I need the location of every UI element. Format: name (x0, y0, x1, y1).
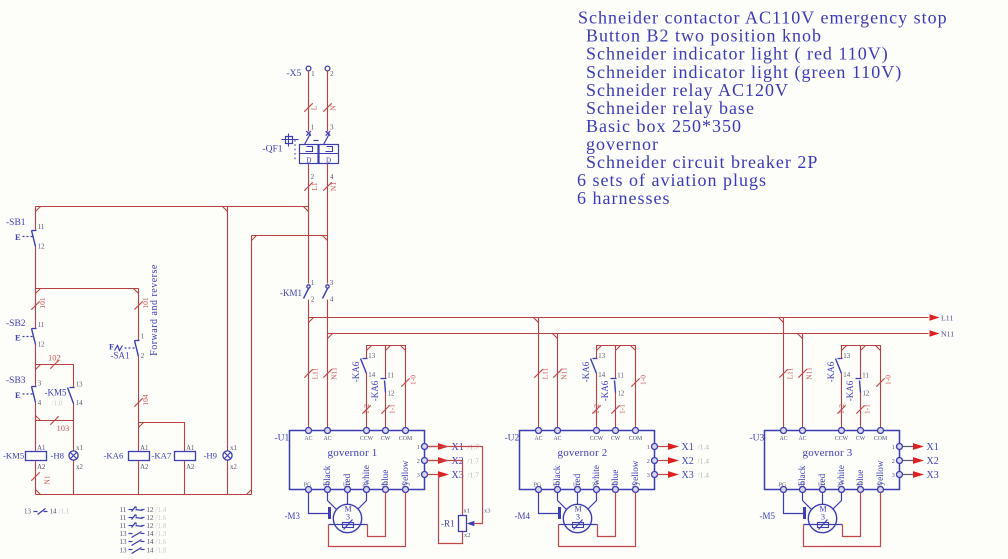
terminal S1 -U1 (383, 487, 389, 493)
junction chamfer KA7 branch (139, 423, 144, 428)
wire number 1-2 marker -U2 (592, 405, 600, 413)
svg-text:-KA6: -KA6 (351, 361, 361, 382)
wire KA6 14 to CCW terminal -U3 (841, 374, 843, 431)
svg-text:1-2: 1-2 (362, 404, 371, 414)
wire number 1-1 marker -U3 (856, 405, 864, 413)
terminal 2 -U3 (897, 458, 903, 464)
svg-text:3: 3 (38, 380, 42, 387)
motor -M5 feedback pot chord (804, 524, 843, 526)
wire X1 output -U1 (428, 446, 439, 448)
wire X1 to R1 wiper (428, 447, 483, 524)
svg-text:-KA6: -KA6 (826, 361, 836, 382)
R1 wiper arrow (467, 521, 475, 527)
svg-text:4: 4 (38, 400, 42, 407)
svg-text:1-2: 1-2 (592, 404, 601, 414)
wire number 103 marker (50, 416, 58, 424)
svg-text:/1.0: /1.0 (52, 400, 63, 408)
L11 bus end arrow (930, 314, 940, 320)
junction chamfer N11 tap -U2 (553, 334, 558, 339)
wire number L11 marker -U3 (779, 369, 787, 377)
KA6 contact cross reference 11-12 row 2 (120, 514, 167, 522)
svg-text:2: 2 (647, 458, 650, 465)
svg-text:X1: X1 (452, 442, 464, 453)
svg-text:1-1: 1-1 (388, 404, 397, 414)
svg-text:/1.7: /1.7 (468, 443, 480, 452)
svg-text:L: L (310, 105, 319, 110)
circuit breaker QF1 body (300, 145, 339, 164)
wire Z2 to motor -U2 (588, 493, 597, 510)
indicator light H9 lamp (223, 451, 232, 460)
connector X5 pin 2 terminal (325, 66, 330, 71)
wire number 1-0 marker -U3 (876, 378, 884, 386)
svg-text:/1.4: /1.4 (698, 471, 710, 480)
svg-text:-KA6: -KA6 (104, 451, 124, 461)
svg-text:12: 12 (388, 390, 395, 397)
svg-text:103: 103 (57, 423, 70, 433)
wire PG to motor brush -U2 (539, 493, 559, 514)
svg-text:red: red (342, 473, 352, 485)
wire L11 drop to -U1 AC1 (308, 300, 310, 431)
svg-text:1: 1 (311, 124, 315, 132)
svg-text:-SB1: -SB1 (6, 218, 26, 228)
wire KA6 14 to CCW terminal -U2 (596, 374, 598, 431)
svg-text:-SA1: -SA1 (111, 351, 130, 361)
svg-text:11: 11 (387, 372, 394, 379)
relay KA6 NC contact 11-12 -U3 (856, 379, 862, 393)
wire N11 bus (328, 333, 929, 335)
svg-text:11: 11 (120, 522, 127, 530)
svg-text:3: 3 (417, 472, 420, 479)
arrow X1 -U2 (668, 443, 679, 450)
terminal S1 -U2 (613, 487, 619, 493)
KA6 contact cross reference 13-14 row 5 (120, 538, 167, 546)
wire top rail L1 to SB1 and H9 (36, 206, 309, 208)
wire number N11 marker -U1 (323, 369, 331, 377)
svg-text:AC: AC (779, 436, 787, 442)
svg-text:x2: x2 (76, 464, 83, 471)
svg-text:/1.6: /1.6 (156, 538, 167, 546)
svg-text:4: 4 (330, 297, 334, 304)
svg-text:-SB3: -SB3 (6, 376, 26, 386)
svg-text:A2: A2 (186, 464, 195, 471)
svg-text:D: D (306, 156, 311, 164)
terminal U1 -U1 (325, 487, 331, 493)
svg-text:2: 2 (892, 458, 895, 465)
svg-text:12: 12 (147, 506, 155, 514)
svg-text:-H9: -H9 (204, 451, 218, 461)
svg-text:E: E (15, 333, 21, 343)
svg-text:white: white (361, 465, 371, 485)
terminal U2 -U1 (345, 487, 351, 493)
arrow X2 -U3 (913, 457, 924, 464)
wire Z2 to motor -U3 (833, 493, 842, 510)
wire bottom N1 rail (36, 494, 252, 496)
relay KA6 NO contact 13-14 -U1 (361, 359, 368, 374)
junction chamfer bracket left -U2 (597, 346, 602, 351)
svg-text:yellow: yellow (400, 460, 410, 485)
terminal CW -U3 (858, 428, 864, 434)
svg-text:AC: AC (304, 436, 312, 442)
junction chamfer at H9 tap (223, 207, 228, 212)
svg-text:CCW: CCW (360, 436, 374, 442)
terminal COM -U3 (878, 428, 884, 434)
potentiometer R1 body (459, 516, 467, 532)
motor -M3 feedback pot element (343, 523, 354, 528)
wire number 104 marker (134, 398, 142, 406)
svg-text:Basic box 250*350: Basic box 250*350 (586, 116, 742, 136)
wire number L marker (304, 103, 312, 111)
junction chamfer at SA1 corner (134, 289, 139, 294)
svg-text:-U2: -U2 (505, 434, 520, 444)
motor -M5 brush bar (803, 507, 806, 519)
terminal 3 -U1 (422, 472, 428, 478)
wire Z2 to motor -U1 (358, 493, 367, 510)
governor unit -U2 box (520, 431, 655, 490)
motor -M3 brush bar (328, 507, 331, 519)
junction chamfer at SB1 top (36, 207, 41, 212)
circuit breaker QF1 linkage dash (314, 140, 319, 142)
svg-text:E: E (15, 232, 21, 242)
svg-text:-KM5: -KM5 (45, 388, 67, 398)
governor unit -U1 box (290, 431, 425, 490)
junction chamfer N11 tap -U3 (798, 334, 803, 339)
start button SB3 contact (15, 387, 37, 403)
svg-text:12: 12 (38, 342, 45, 349)
svg-text:2: 2 (330, 70, 334, 78)
wire PG to motor brush -U3 (784, 493, 804, 514)
governor unit -U3 box (765, 431, 900, 490)
wire number N1 marker bottom (31, 472, 39, 480)
svg-text:2: 2 (311, 173, 315, 181)
wire S1 to pot right -U1 (368, 493, 386, 537)
svg-text:/1.6: /1.6 (156, 514, 167, 522)
wire number 101 marker on SA1 wire (134, 301, 142, 309)
svg-text:13: 13 (120, 538, 128, 546)
wire 103 from SB3 to KM5 contact column (36, 420, 74, 422)
svg-text:AC: AC (323, 436, 331, 442)
motor -M4 feedback pot wiper (574, 520, 583, 530)
svg-text:CCW: CCW (590, 436, 604, 442)
svg-text:X3: X3 (682, 470, 694, 481)
wire L11 drop to -U3 AC1 (783, 318, 785, 431)
svg-text:CW: CW (611, 436, 621, 442)
svg-text:1-0: 1-0 (884, 375, 893, 385)
wire X2 output -U1 (428, 460, 439, 462)
svg-text:1: 1 (417, 444, 420, 451)
svg-text:/1.8: /1.8 (156, 546, 167, 554)
svg-text:CW: CW (381, 436, 391, 442)
svg-text:N1: N1 (329, 182, 338, 191)
wire number 1-1 marker -U2 (611, 405, 619, 413)
svg-text:/1.1: /1.1 (59, 508, 70, 516)
terminal U2 -U3 (820, 487, 826, 493)
svg-text:F: F (109, 342, 114, 352)
svg-text:-M5: -M5 (760, 511, 776, 521)
wire L11 drop to -U2 AC1 (538, 318, 540, 431)
junction chamfer at rail right (247, 490, 252, 495)
KA6 contact cross reference 11-12 row 1 (120, 506, 167, 514)
terminal Z2 -U2 (594, 487, 600, 493)
wire X3 output -U1 (428, 474, 439, 476)
wire N11 drop to -U1 AC2 (327, 300, 329, 431)
svg-text:AC: AC (798, 436, 806, 442)
terminal COM -U2 (633, 428, 639, 434)
svg-text:PG: PG (779, 482, 786, 488)
svg-text:11: 11 (38, 224, 45, 231)
svg-text:/1.4: /1.4 (698, 457, 710, 466)
terminal AC -U1 (325, 428, 331, 434)
indicator light H8 lamp (69, 451, 78, 460)
junction chamfer bracket left -U3 (842, 346, 847, 351)
motor -M5 feedback pot wiper (819, 520, 828, 530)
wire number 102 marker (50, 360, 58, 368)
wire control bracket -U2 (597, 346, 636, 431)
svg-text:13: 13 (598, 353, 605, 360)
wire X1 output -U3 (903, 446, 914, 448)
wire S2 to pot left -U3 (804, 493, 881, 547)
svg-text:1-1: 1-1 (863, 404, 872, 414)
arrow X3 -U3 (913, 471, 924, 478)
terminal S2 -U3 (878, 487, 884, 493)
terminal CW -U1 (383, 428, 389, 434)
svg-text:yellow: yellow (630, 460, 640, 485)
svg-text:/1.3: /1.3 (156, 530, 167, 538)
svg-text:A1: A1 (37, 445, 45, 452)
contactor coil KM5 (26, 452, 47, 461)
wire KA6 coil to rail (138, 461, 140, 495)
svg-text:-M4: -M4 (515, 511, 531, 521)
junction chamfer bracket CW -U2 (616, 346, 621, 351)
wire SB1 column upper (35, 207, 37, 231)
svg-text:x3: x3 (484, 508, 490, 515)
svg-text:governor: governor (586, 134, 659, 154)
svg-text:-X5: -X5 (287, 69, 302, 79)
wire control bracket -U3 (842, 346, 881, 431)
svg-text:X2: X2 (682, 456, 694, 467)
wire KA6 12 to CW terminal -U2 (615, 393, 617, 431)
terminal U2 -U2 (575, 487, 581, 493)
terminal 1 -U2 (652, 444, 658, 450)
wire KM5 coil to rail (35, 461, 37, 495)
svg-text:3: 3 (821, 513, 825, 522)
terminal AC -U2 (555, 428, 561, 434)
svg-text:N1: N1 (43, 475, 52, 484)
wire X1 output -U2 (658, 446, 669, 448)
svg-text:X2: X2 (452, 456, 464, 467)
junction chamfer bracket CW -U3 (861, 346, 866, 351)
wire U2 to motor -U3 (822, 493, 824, 505)
svg-text:13: 13 (368, 353, 375, 360)
terminal 1 -U3 (897, 444, 903, 450)
wire S1 to pot right -U2 (598, 493, 616, 537)
svg-text:2: 2 (141, 353, 145, 360)
svg-text:governor 3: governor 3 (803, 447, 853, 459)
KA6 contact cross reference 11-12 row 3 (120, 522, 167, 530)
wire X2 to R1 top (428, 461, 463, 516)
svg-text:L11: L11 (541, 367, 550, 379)
motor -M4 feedback pot element (573, 523, 584, 528)
wire branch to KA7 coil (139, 423, 185, 452)
svg-text:13: 13 (24, 508, 32, 516)
svg-text:1: 1 (647, 444, 650, 451)
svg-text:/1.4: /1.4 (698, 443, 710, 452)
svg-text:11: 11 (617, 372, 624, 379)
wire number 1-2 marker -U3 (837, 405, 845, 413)
svg-text:N11: N11 (330, 367, 339, 380)
svg-text:COM: COM (629, 436, 642, 442)
svg-text:L11: L11 (786, 367, 795, 379)
svg-text:1-2: 1-2 (837, 404, 846, 414)
wire L11 bus (309, 317, 929, 319)
wire from SB1 to SB2 with 101 branch (35, 247, 37, 329)
emergency stop button SB1 contact (15, 231, 37, 247)
svg-text:N11: N11 (560, 367, 569, 380)
wire X3 output -U2 (658, 474, 669, 476)
wire control bracket -U1 (367, 346, 406, 431)
wire number 1-0 marker -U2 (631, 378, 639, 386)
motor -M3 feedback pot chord (329, 524, 368, 526)
wire S2 to pot left -U1 (329, 493, 406, 547)
selector switch SA1 contact (109, 341, 140, 357)
circuit breaker QF1 pole 2 contact (324, 131, 331, 144)
svg-text:-KA6: -KA6 (370, 380, 380, 401)
svg-text:A1: A1 (140, 445, 148, 452)
wire U2 to motor -U2 (577, 493, 579, 505)
svg-text:white: white (836, 465, 846, 485)
svg-text:101: 101 (38, 297, 47, 309)
svg-text:12: 12 (863, 390, 870, 397)
svg-text:Schneider circuit breaker 2P: Schneider circuit breaker 2P (586, 152, 818, 172)
parts list text (577, 8, 948, 209)
junction chamfer 103 branch (36, 416, 41, 421)
junction chamfer 101 branch (36, 289, 41, 294)
contactor KM5 NO contact (68, 388, 75, 404)
terminal CCW -U3 (839, 428, 845, 434)
relay KA6 NO contact 13-14 -U3 (836, 359, 843, 374)
svg-text:x2: x2 (464, 532, 470, 539)
wire N1 from QF1 pin 4 down to KM1 pin 3 (327, 164, 329, 284)
terminal 2 -U1 (422, 458, 428, 464)
wire KA7 coil to rail (184, 461, 186, 495)
svg-text:governor 1: governor 1 (328, 447, 378, 459)
terminal 1 -U1 (422, 444, 428, 450)
svg-text:102: 102 (48, 353, 61, 363)
svg-text:12: 12 (147, 522, 155, 530)
relay coil KA7 (175, 452, 196, 461)
svg-text:red: red (572, 473, 582, 485)
arrow X1 -U1 (438, 443, 449, 450)
svg-text:6 harnesses: 6 harnesses (577, 188, 670, 208)
wire PG to motor brush -U1 (309, 493, 329, 514)
svg-text:11: 11 (120, 506, 127, 514)
svg-text:Schneider relay AC120V: Schneider relay AC120V (586, 80, 789, 100)
svg-text:-KA6: -KA6 (845, 380, 855, 401)
wire number 1-1 marker -U1 (381, 405, 389, 413)
wire U1 to motor -U3 (803, 493, 812, 510)
svg-text:14: 14 (598, 372, 605, 379)
KA6 contact cross reference 13-14 row 6 (120, 546, 167, 554)
svg-text:yellow: yellow (875, 460, 885, 485)
svg-text:-KM5: -KM5 (3, 451, 24, 461)
svg-text:red: red (817, 473, 827, 485)
junction chamfer at N branch corner (252, 236, 257, 241)
svg-text:/1.8: /1.8 (156, 522, 167, 530)
svg-text:12: 12 (38, 244, 45, 251)
terminal PG -U2 (536, 487, 542, 493)
motor -M4 brush bar (558, 507, 561, 519)
terminal S2 -U1 (403, 487, 409, 493)
svg-text:-H8: -H8 (51, 451, 65, 461)
svg-text:1: 1 (311, 70, 315, 78)
junction chamfer 102 branch (36, 365, 41, 370)
wire X2 output -U3 (903, 460, 914, 462)
N11 bus end arrow (930, 330, 940, 336)
motor -M5 body (808, 504, 836, 532)
svg-text:14: 14 (147, 546, 155, 554)
svg-text:11: 11 (38, 322, 45, 329)
svg-text:X1: X1 (927, 442, 939, 453)
svg-text:CCW: CCW (835, 436, 849, 442)
svg-text:2: 2 (417, 458, 420, 465)
svg-text:L1: L1 (310, 182, 319, 191)
terminal 3 -U2 (652, 472, 658, 478)
junction chamfer bracket CW -U1 (386, 346, 391, 351)
motor -M5 feedback pot element (818, 523, 829, 528)
svg-text:-R1: -R1 (441, 519, 455, 529)
svg-text:2: 2 (311, 297, 315, 304)
wire KM5 contact to 103 node and H8 (73, 404, 75, 452)
wire U2 to motor -U1 (347, 493, 349, 505)
wire N11 drop to -U2 AC2 (557, 334, 559, 431)
wire 101 branch to SA1 (36, 288, 139, 290)
terminal AC -U3 (781, 428, 787, 434)
wire X2 output -U2 (658, 460, 669, 462)
svg-text:X3: X3 (452, 470, 464, 481)
contactor KM1 contact pole 2 (323, 285, 330, 299)
KM5 auxiliary contact cross reference 13-14 (24, 508, 70, 516)
svg-text:blue: blue (855, 470, 865, 486)
wire number N1 marker (323, 182, 331, 190)
terminal Z2 -U3 (839, 487, 845, 493)
svg-text:1-1: 1-1 (618, 404, 627, 414)
wire number 1-0 marker -U1 (401, 378, 409, 386)
svg-text:12: 12 (618, 390, 625, 397)
terminal 2 -U2 (652, 458, 658, 464)
svg-text:x1: x1 (76, 445, 83, 452)
junction chamfer at rail left (36, 490, 41, 495)
wire number 1-2 marker -U1 (362, 405, 370, 413)
svg-text:Forward and reverse: Forward and reverse (149, 264, 160, 356)
wire KA6 14 to CCW terminal -U1 (366, 374, 368, 431)
svg-text:3: 3 (576, 513, 580, 522)
wire 102 branch to KM5 contact (36, 365, 74, 388)
svg-text:-QF1: -QF1 (263, 145, 283, 155)
arrow X2 -U2 (668, 457, 679, 464)
terminal AC -U3 (800, 428, 806, 434)
wire CW drop from bracket -U1 (385, 346, 387, 379)
svg-text:1: 1 (311, 280, 314, 287)
svg-text:x2: x2 (230, 464, 237, 471)
svg-text:Schneider contactor AC110V eme: Schneider contactor AC110V emergency sto… (578, 8, 948, 28)
svg-text:1-0: 1-0 (639, 375, 648, 385)
svg-text:A1: A1 (186, 445, 194, 452)
svg-text:11: 11 (120, 514, 127, 522)
junction chamfer L11 tap -U2 (534, 318, 539, 323)
svg-text:blue: blue (380, 470, 390, 486)
svg-text:3: 3 (330, 280, 334, 287)
svg-text:PG: PG (534, 482, 541, 488)
svg-text:x1: x1 (230, 445, 237, 452)
